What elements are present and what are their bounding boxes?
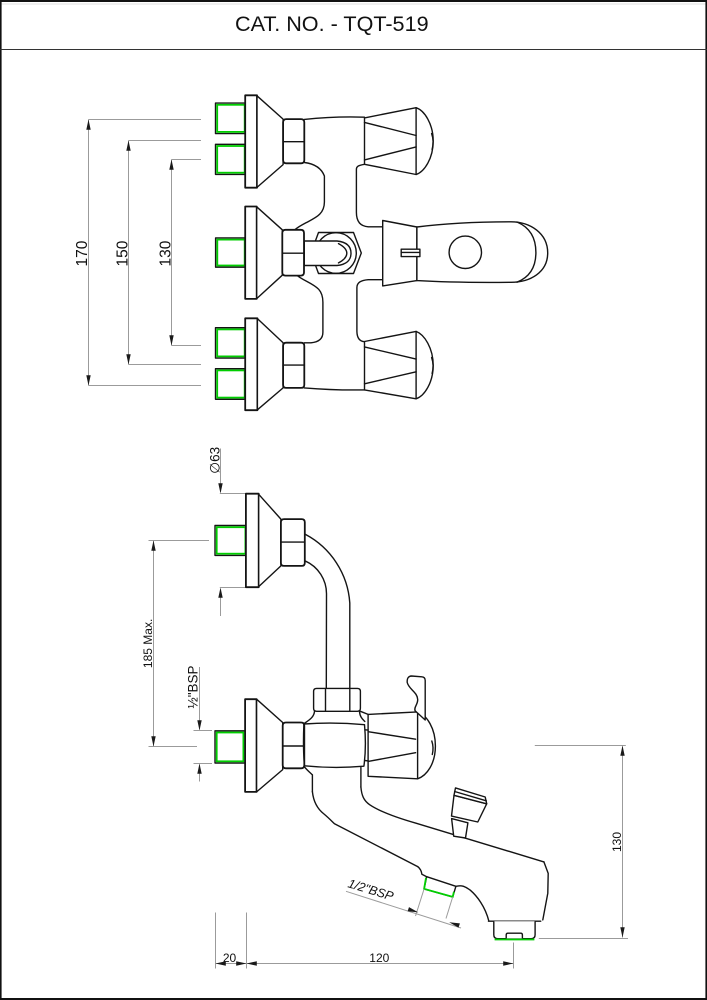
upper wall assembly (shower elbow) — [215, 494, 305, 588]
inscribed circle — [316, 233, 357, 274]
top trunk right side — [356, 164, 382, 227]
spout top edge — [361, 787, 544, 862]
spout end right side — [543, 862, 548, 920]
spout underside — [312, 792, 417, 867]
set screw slot — [401, 249, 420, 256]
wall assembly BOTTOM — [216, 318, 305, 410]
mouth cup — [489, 920, 541, 922]
svg-text:CAT. NO. - TQT-519: CAT. NO. - TQT-519 — [235, 11, 429, 36]
handle (view2) skirt — [368, 712, 435, 779]
bottom handle knob — [365, 331, 434, 398]
svg-text:∅63: ∅63 — [208, 447, 223, 474]
hand shower outlet (1/2 BSP) — [424, 877, 456, 897]
top trunk left side — [295, 163, 325, 230]
bottom dimensions 20 / 120 — [216, 913, 514, 969]
middle hexagon nut (face-on) — [311, 233, 361, 274]
step before outlet — [418, 867, 427, 877]
top handle knob — [365, 108, 434, 175]
130 dimension right — [535, 746, 628, 939]
dimension 150 — [115, 141, 202, 365]
neck fillets to barrel — [304, 711, 314, 723]
bottom arm bottom edge — [304, 388, 364, 390]
185 Max dimension — [141, 541, 209, 747]
middle lever (diverter) trapezoid — [383, 221, 417, 286]
underside after outlet — [456, 886, 489, 921]
dimension 130 — [158, 160, 202, 346]
svg-text:185 Max.: 185 Max. — [141, 619, 155, 668]
column below barrel — [304, 767, 312, 792]
svg-text:½"BSP: ½"BSP — [186, 665, 201, 708]
svg-text:130: 130 — [158, 240, 175, 266]
body top edge between nut and handle — [360, 711, 368, 714]
dia 63 dimension — [208, 447, 246, 616]
wall assembly MIDDLE — [216, 207, 304, 299]
svg-text:170: 170 — [74, 240, 91, 266]
lever body — [417, 222, 548, 283]
svg-text:120: 120 — [369, 951, 389, 965]
top arm top edge — [304, 117, 364, 119]
bottom trunk left side — [296, 274, 323, 343]
diagonal 1/2"BSP dimension — [346, 876, 461, 928]
barrel (cartridge body) — [303, 723, 365, 767]
svg-text:130: 130 — [610, 832, 624, 852]
center outlet pipe — [304, 241, 351, 266]
collar lines between barrel and skirt — [365, 729, 368, 731]
bottom trunk right side — [357, 280, 383, 342]
elbow bend pipe — [305, 534, 350, 689]
lever hole — [449, 236, 481, 268]
1/2 BSP (left, vertical) dimension — [186, 665, 212, 781]
dimension 170 — [74, 120, 201, 386]
wall assembly TOP: nipples — [216, 95, 305, 187]
lever on top — [407, 676, 425, 720]
diverter knob on spout — [452, 788, 487, 838]
lower wall assembly — [215, 699, 304, 792]
body: nut — [314, 688, 361, 711]
svg-text:20: 20 — [223, 951, 237, 965]
svg-text:150: 150 — [115, 240, 132, 266]
